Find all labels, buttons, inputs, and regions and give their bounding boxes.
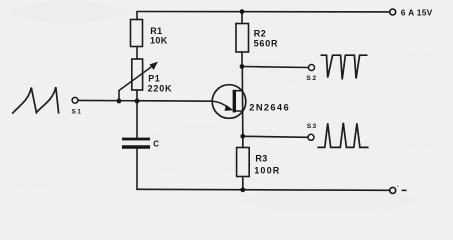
resistor R1 <box>131 20 143 47</box>
stray ink tick <box>397 186 398 187</box>
svg-text:R3: R3 <box>255 154 267 164</box>
terminal supply positive <box>390 9 396 15</box>
svg-text:R2: R2 <box>254 28 266 38</box>
node P1 wiper junction <box>117 99 122 104</box>
wire S3 node to R3 <box>242 136 244 147</box>
wire node to capacitor <box>136 101 138 138</box>
emitter lead with arrowhead <box>213 101 229 107</box>
S2 output waveform (falling sawtooth spikes) <box>321 55 368 79</box>
wire R1 bottom to P1 top <box>136 47 138 60</box>
transistor Q1 2N2646 <box>212 85 246 119</box>
wire capacitor to bottom rail <box>136 149 138 190</box>
svg-text:560R: 560R <box>254 39 279 49</box>
svg-text:100R: 100R <box>254 165 280 175</box>
svg-text:C: C <box>153 139 159 148</box>
wire R2 bottom to S2 node <box>241 52 243 67</box>
svg-text:6 A 15V: 6 A 15V <box>401 7 433 17</box>
svg-text:S3: S3 <box>307 123 317 130</box>
svg-text:10K: 10K <box>150 36 168 46</box>
terminal supply negative <box>390 187 396 193</box>
node R3 at bottom rail <box>240 187 245 192</box>
wire base column through transistor <box>241 67 244 137</box>
capacitor C <box>122 139 150 147</box>
input sawtooth waveform <box>12 87 59 114</box>
terminal S1 <box>72 97 78 103</box>
wire R3 bottom to rail <box>242 177 244 190</box>
base-two stub <box>236 90 243 92</box>
wire top supply rail <box>137 11 390 13</box>
base bar <box>233 90 236 113</box>
wire P1 wiper drop <box>118 91 120 102</box>
terminal S2 <box>309 65 315 71</box>
potentiometer P1 arrow <box>119 62 158 91</box>
wire R1 top to rail <box>136 12 138 20</box>
base-one stub <box>236 110 243 112</box>
wire S3 tap <box>243 136 308 137</box>
node S2 junction <box>240 64 245 69</box>
resistor R2 <box>236 24 249 53</box>
node S3 junction <box>240 134 245 139</box>
node below P1 <box>135 99 140 104</box>
S3 output waveform (rising spikes) <box>317 123 368 147</box>
resistor R3 <box>237 148 250 177</box>
svg-text:S2: S2 <box>306 75 317 82</box>
wire R2 top to rail <box>241 12 243 24</box>
wire S2 tap <box>242 67 308 68</box>
potentiometer P1 <box>132 59 143 90</box>
wire bottom rail <box>137 189 390 190</box>
terminal S3 <box>308 134 314 140</box>
wire input node line S1 to emitter <box>78 99 213 102</box>
minus sign <box>402 189 407 191</box>
node R2 at supply rail <box>240 9 245 14</box>
svg-text:S1: S1 <box>72 108 83 115</box>
wire P1 bottom to node <box>136 90 138 101</box>
svg-text:P1: P1 <box>148 73 160 83</box>
svg-text:2N2646: 2N2646 <box>249 102 290 112</box>
svg-text:220K: 220K <box>148 83 173 93</box>
